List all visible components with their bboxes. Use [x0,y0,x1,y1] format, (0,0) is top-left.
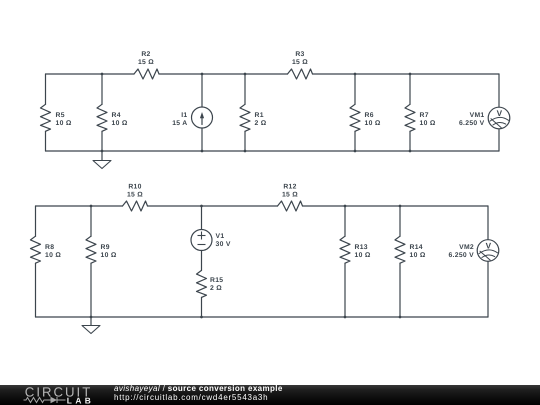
svg-text:2 Ω: 2 Ω [210,285,222,292]
svg-text:VM1: VM1 [470,112,485,119]
svg-text:R12: R12 [283,184,296,191]
svg-text:R7: R7 [420,112,429,119]
svg-text:10 Ω: 10 Ω [365,120,381,127]
svg-text:R14: R14 [410,244,423,251]
svg-text:10 Ω: 10 Ω [101,252,117,259]
svg-text:15 Ω: 15 Ω [292,59,308,66]
svg-text:I1: I1 [181,112,187,119]
svg-text:15 A: 15 A [172,120,187,127]
svg-text:R15: R15 [210,277,223,284]
svg-text:10 Ω: 10 Ω [56,120,72,127]
svg-text:R1: R1 [255,112,264,119]
svg-text:V: V [497,109,503,118]
svg-text:R3: R3 [295,51,304,58]
svg-text:R2: R2 [141,51,150,58]
svg-text:LAB: LAB [67,396,94,405]
svg-text:30 V: 30 V [216,241,231,248]
svg-text:R13: R13 [355,244,368,251]
svg-text:2 Ω: 2 Ω [255,120,267,127]
svg-text:VM2: VM2 [459,244,474,251]
svg-text:15 Ω: 15 Ω [138,59,154,66]
svg-text:15 Ω: 15 Ω [282,192,298,199]
svg-text:6.250 V: 6.250 V [459,120,485,127]
svg-text:15 Ω: 15 Ω [127,192,143,199]
svg-text:10 Ω: 10 Ω [355,252,371,259]
svg-text:10 Ω: 10 Ω [112,120,128,127]
svg-text:10 Ω: 10 Ω [45,252,61,259]
svg-text:R8: R8 [45,244,54,251]
svg-text:R9: R9 [101,244,110,251]
svg-text:6.250 V: 6.250 V [448,252,474,259]
svg-text:V1: V1 [216,233,225,240]
svg-text:10 Ω: 10 Ω [410,252,426,259]
svg-text:R4: R4 [112,112,121,119]
svg-text:R6: R6 [365,112,374,119]
svg-text:10 Ω: 10 Ω [420,120,436,127]
svg-text:R10: R10 [128,184,141,191]
svg-text:V: V [486,242,492,251]
svg-text:R5: R5 [56,112,65,119]
